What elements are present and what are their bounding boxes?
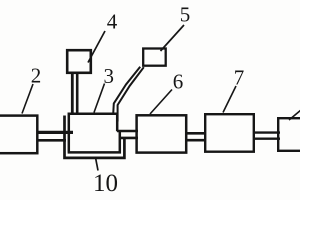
wire 4-3 right vertical bbox=[76, 73, 79, 114]
svg-text:3: 3 bbox=[104, 64, 115, 88]
block 4 bbox=[67, 50, 91, 73]
leader line for block 8 (cut at edge) bbox=[289, 110, 301, 120]
svg-text:6: 6 bbox=[173, 70, 184, 94]
enclosure 10 bbox=[65, 116, 125, 158]
wire bus 2-3 lower bbox=[38, 139, 66, 142]
svg-text:5: 5 bbox=[180, 3, 191, 27]
leader line for label 5 bbox=[161, 25, 185, 51]
wire bus 3-6 lower bbox=[120, 137, 138, 140]
block 2 bbox=[0, 116, 37, 154]
leader line for label 6 bbox=[150, 90, 172, 115]
block 5 bbox=[143, 49, 166, 66]
svg-text:2: 2 bbox=[31, 64, 42, 88]
wire 5-3 diagonal right line bbox=[118, 67, 144, 121]
svg-text:4: 4 bbox=[107, 10, 118, 34]
background paper bbox=[0, 0, 300, 200]
leader line for label 2 bbox=[22, 84, 33, 114]
wire bus 7-8 upper bbox=[254, 131, 281, 133]
wire bus 3-6 upper bbox=[117, 130, 138, 133]
leader line for label 7 bbox=[223, 86, 236, 113]
svg-text:10: 10 bbox=[93, 170, 118, 197]
leader line for label 3 bbox=[94, 84, 105, 113]
block 3 bbox=[68, 114, 120, 153]
leader line for label 4 bbox=[88, 31, 105, 63]
wire 4-3 left vertical bbox=[71, 73, 74, 115]
block 6 bbox=[137, 115, 187, 152]
wire 5-3 diagonal left line bbox=[113, 67, 140, 114]
wire bus 6-7 upper bbox=[186, 132, 207, 135]
wire bus 7-8 lower bbox=[254, 137, 281, 139]
leader line for label 10 bbox=[96, 158, 99, 171]
block 7 bbox=[205, 114, 254, 152]
wire bus 2-3 upper bbox=[37, 131, 73, 134]
wire bus 6-7 lower bbox=[186, 139, 207, 142]
svg-text:7: 7 bbox=[234, 66, 245, 90]
block 8 (partial at right edge) bbox=[278, 118, 305, 151]
